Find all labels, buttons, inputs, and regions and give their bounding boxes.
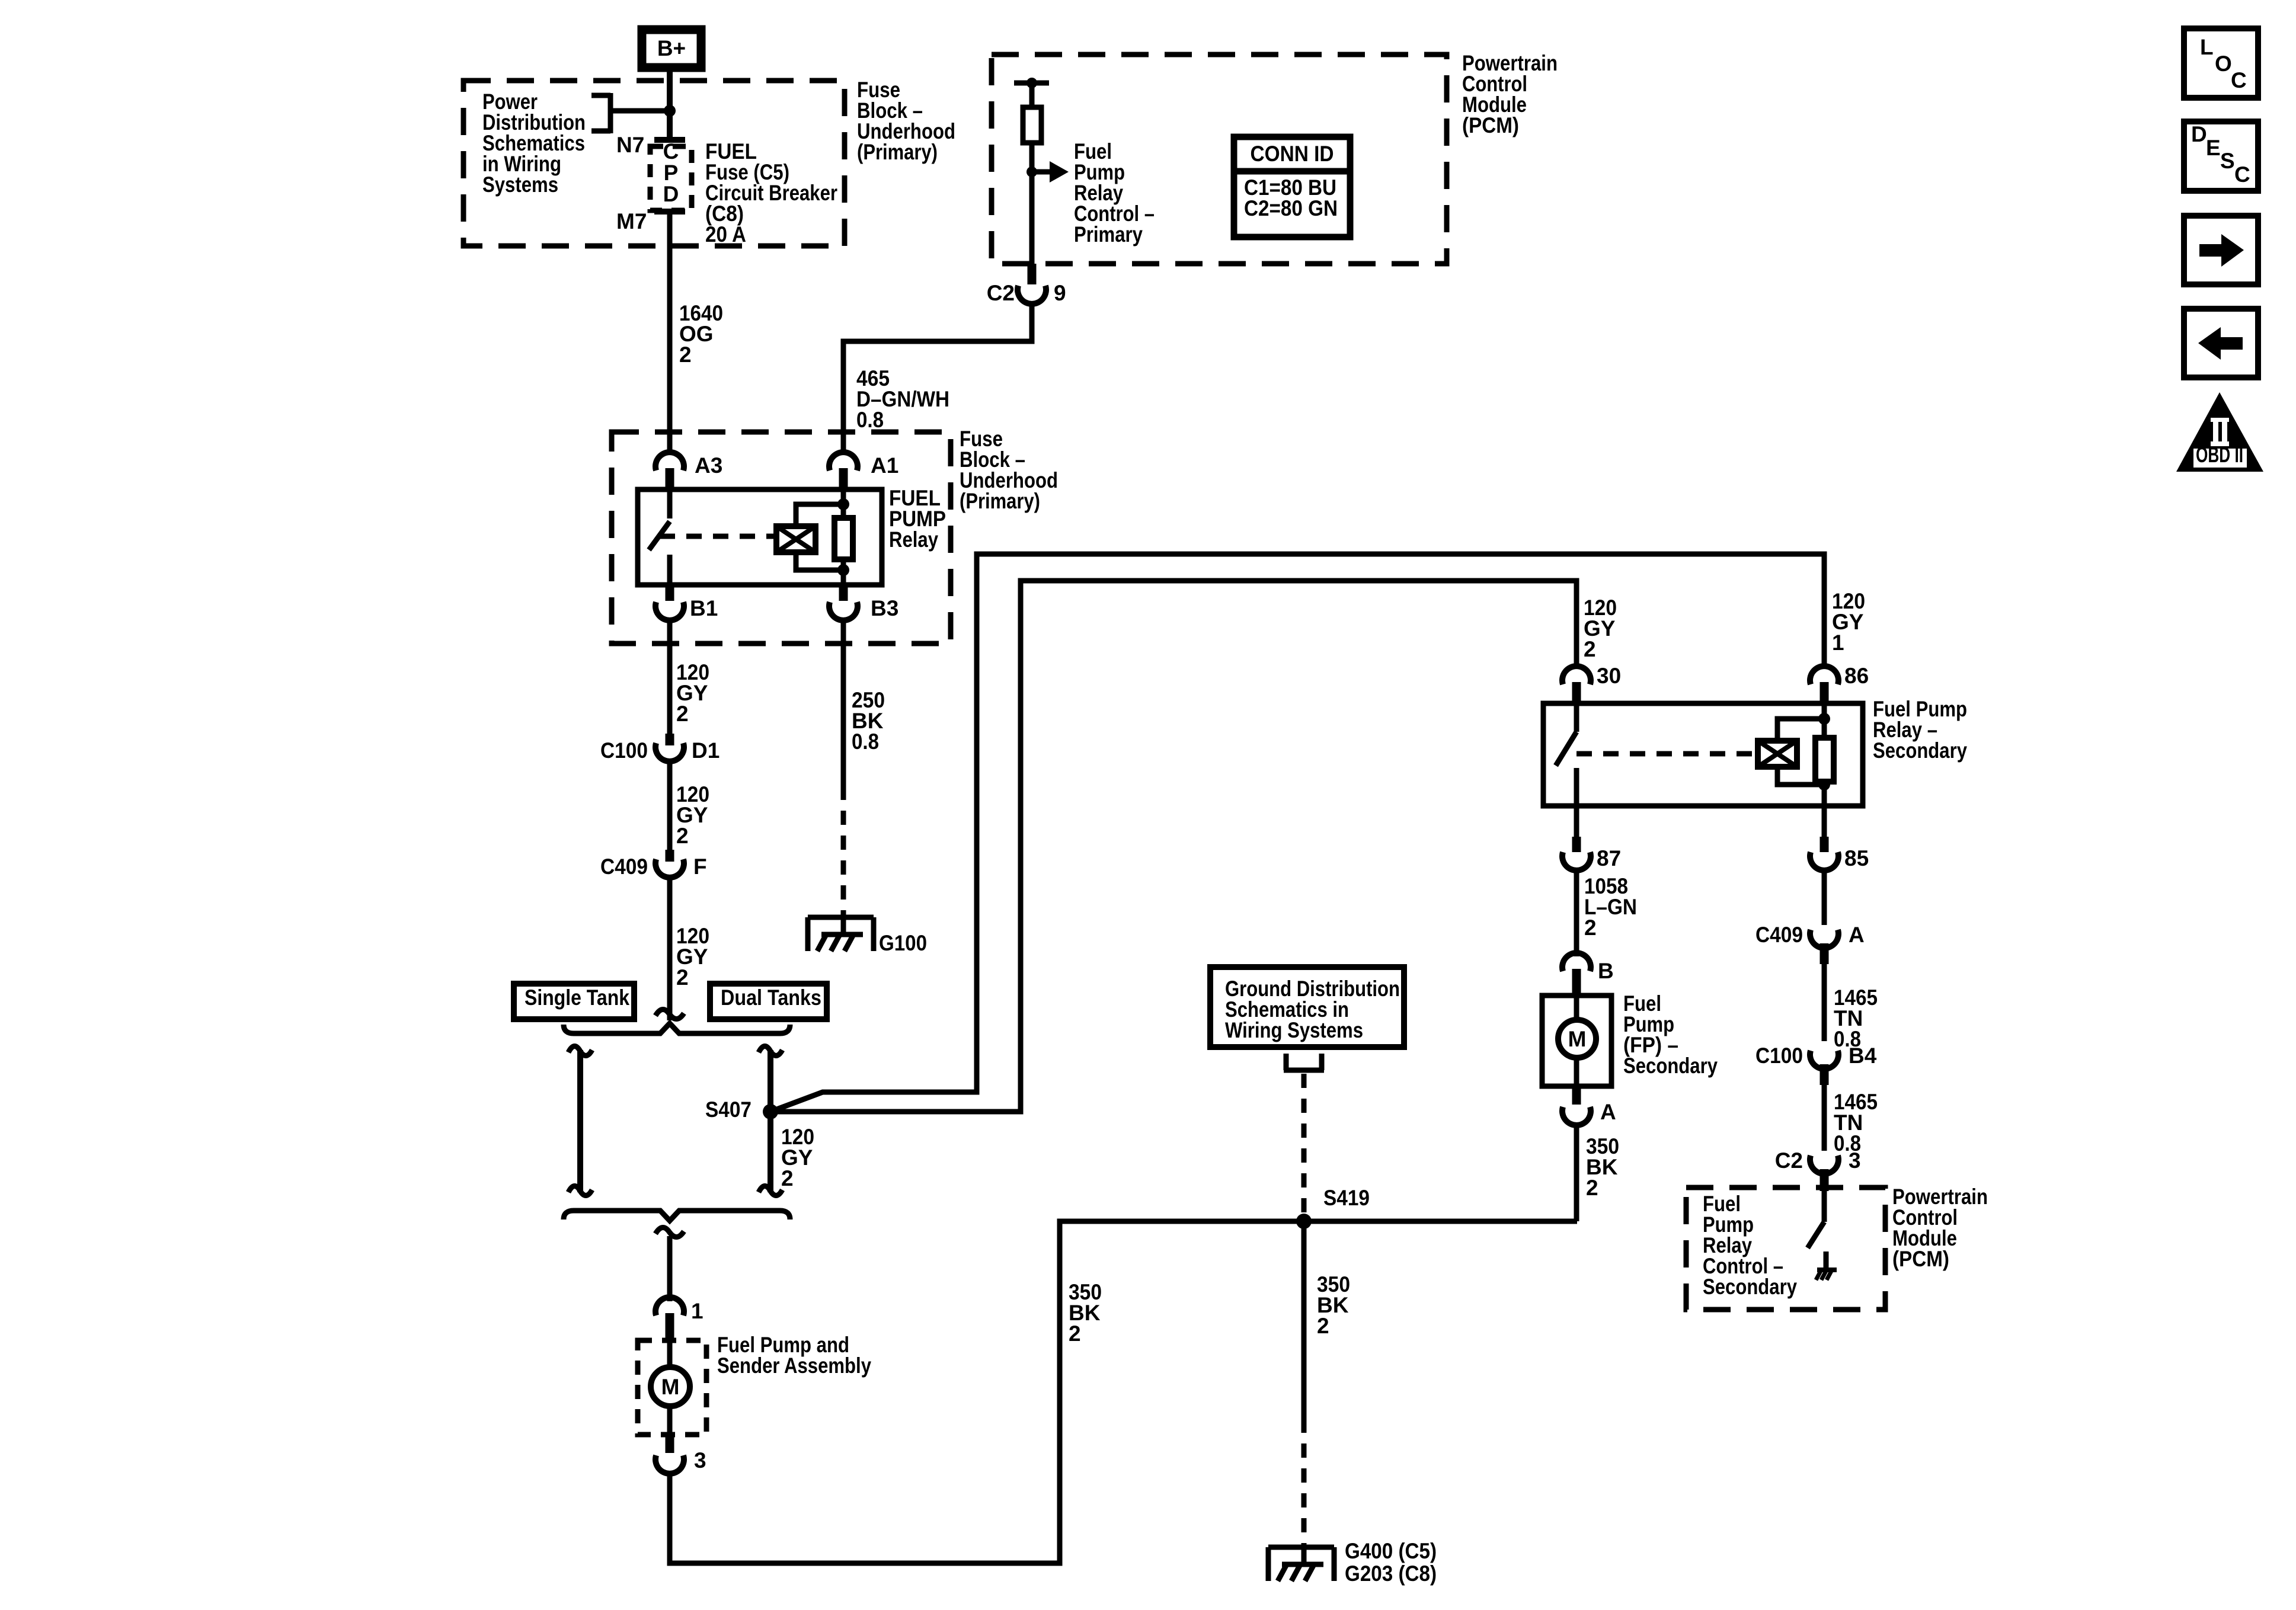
power distribution schematics label — [482, 89, 586, 197]
wire 85 to C409-A, circuit 1465 — [1822, 870, 1827, 925]
tank option brace - top — [564, 1023, 790, 1033]
svg-text:CONN ID: CONN ID — [1251, 142, 1334, 166]
svg-text:C2: C2 — [1775, 1148, 1803, 1173]
svg-text:Wiring Systems: Wiring Systems — [1225, 1018, 1363, 1042]
svg-text:M: M — [1568, 1027, 1587, 1051]
splice S407 — [705, 1097, 778, 1122]
wire pump A to S419, circuit 350 — [1574, 1126, 1579, 1221]
wire S407 to relay secondary 86 — [770, 554, 1824, 1112]
svg-text:B3: B3 — [871, 596, 898, 620]
svg-text:20 A: 20 A — [705, 222, 746, 247]
connector pin 87 — [1562, 806, 1621, 870]
ground G100 — [808, 916, 927, 955]
svg-text:1: 1 — [691, 1299, 703, 1323]
fuel pump relay control primary label — [1074, 139, 1155, 247]
Dual Tanks box — [710, 984, 827, 1019]
svg-text:C409: C409 — [600, 854, 648, 879]
fuse description label — [705, 139, 837, 247]
connector C409 pin A — [1755, 923, 1865, 964]
svg-text:G100: G100 — [879, 931, 927, 955]
FUEL PUMP Relay label — [889, 486, 946, 552]
svg-text:D: D — [663, 182, 679, 206]
svg-text:3: 3 — [1849, 1148, 1861, 1173]
icon DESC — [2184, 121, 2258, 191]
svg-text:87: 87 — [1597, 846, 1621, 870]
svg-text:2: 2 — [1317, 1314, 1329, 1338]
splice symbol below tank brace — [655, 1227, 684, 1237]
svg-text:C409: C409 — [1755, 923, 1803, 947]
svg-text:O: O — [2215, 52, 2232, 76]
wire B+ to fuse — [667, 72, 673, 139]
svg-text:B: B — [1598, 959, 1614, 983]
svg-text:M: M — [661, 1375, 680, 1399]
fuel pump FP secondary label — [1623, 991, 1718, 1078]
circuit 120 GY 1 at pin 86 — [1832, 589, 1865, 655]
svg-text:Dual Tanks: Dual Tanks — [721, 985, 821, 1010]
svg-text:2: 2 — [676, 824, 689, 848]
CONN ID table — [1234, 137, 1350, 237]
svg-text:2: 2 — [1069, 1321, 1081, 1346]
connector B3 — [829, 585, 898, 620]
power distribution reference bracket — [591, 93, 670, 133]
svg-text:C100: C100 — [1755, 1044, 1803, 1068]
circuit 1465 TN 0.8 - lower — [1822, 1085, 1827, 1151]
svg-text:D: D — [2191, 122, 2207, 146]
circuit 120 GY 2 at S407 — [781, 1125, 814, 1190]
dual tank bracket - right — [759, 1046, 782, 1195]
svg-text:0.8: 0.8 — [852, 729, 879, 754]
svg-text:Systems: Systems — [482, 172, 558, 197]
fuse block relay label — [960, 427, 1058, 513]
svg-text:9: 9 — [1054, 281, 1066, 305]
circuit 120 GY 2 at pin 30 — [1584, 596, 1617, 661]
splice symbol above tank brace — [655, 1009, 684, 1019]
connector pin B — [1562, 953, 1614, 996]
ground distribution drop bracket — [1284, 1054, 1324, 1070]
svg-text:2: 2 — [676, 965, 689, 990]
ground distribution schematics box — [1210, 967, 1404, 1047]
svg-text:(Primary): (Primary) — [960, 489, 1040, 513]
relay secondary coil — [1758, 741, 1797, 767]
svg-text:N7: N7 — [616, 133, 644, 157]
svg-text:Sender Assembly: Sender Assembly — [717, 1353, 871, 1378]
ground G400 / G203 — [1268, 1539, 1437, 1586]
icon LOC — [2184, 28, 2258, 98]
wire pump return to S419 — [670, 1221, 1577, 1563]
svg-text:(PCM): (PCM) — [1462, 113, 1519, 137]
fuse block underhood (primary) dashed box - top — [463, 81, 845, 246]
wire C409 to tanks, circuit 120 — [667, 878, 673, 1020]
svg-text:Primary: Primary — [1074, 222, 1143, 247]
svg-text:A3: A3 — [695, 453, 722, 478]
svg-text:F: F — [693, 854, 707, 879]
powertrain control module dashed box - top — [992, 55, 1447, 264]
svg-text:Single Tank: Single Tank — [525, 985, 629, 1010]
svg-text:(PCM): (PCM) — [1892, 1247, 1949, 1271]
connector C2 pin 3 — [1775, 1148, 1861, 1191]
relay secondary switch — [1556, 703, 1576, 806]
svg-text:3: 3 — [694, 1448, 706, 1473]
svg-text:Secondary: Secondary — [1623, 1054, 1718, 1078]
svg-text:G203 (C8): G203 (C8) — [1345, 1561, 1437, 1586]
svg-text:A1: A1 — [871, 453, 898, 478]
fuse block label — [857, 78, 955, 164]
wire S407 to relay secondary 30 — [770, 581, 1576, 1112]
svg-text:85: 85 — [1844, 846, 1869, 870]
circuit 350 BK 2 - left — [1069, 1280, 1102, 1346]
svg-text:S: S — [2220, 149, 2235, 173]
svg-text:C2: C2 — [987, 281, 1015, 305]
svg-text:M7: M7 — [616, 209, 647, 233]
connector pin 1 — [655, 1297, 703, 1340]
PCM secondary driver switch to ground — [1808, 1191, 1837, 1280]
connector C409 pin F — [600, 850, 707, 879]
svg-text:2: 2 — [781, 1166, 794, 1190]
fuel pump and sender assembly dashed box — [638, 1340, 706, 1435]
connector C2 pin 9 (PCM) — [987, 264, 1066, 305]
fuse CPD (FUEL fuse / circuit breaker) — [650, 139, 692, 212]
svg-text:2: 2 — [1584, 916, 1597, 940]
single tank bracket - left — [568, 1046, 592, 1195]
svg-text:OBD II: OBD II — [2196, 443, 2243, 467]
connector pin A — [1562, 1086, 1616, 1125]
wire to fuel pump connector 1 — [667, 1236, 673, 1301]
relay actuation dashed line — [660, 534, 775, 539]
svg-text:C: C — [2234, 162, 2250, 187]
icon arrow right — [2184, 216, 2258, 284]
fuel pump motor M — [651, 1340, 690, 1435]
svg-text:0.8: 0.8 — [856, 408, 884, 432]
wire fuse to A3, circuit 1640 — [667, 213, 673, 453]
svg-text:E: E — [2206, 136, 2221, 160]
PCM secondary dashed box — [1686, 1188, 1885, 1310]
svg-text:A: A — [1849, 923, 1865, 947]
PCM driver resistor — [1023, 83, 1041, 264]
PCM secondary label — [1892, 1185, 1988, 1271]
svg-text:2: 2 — [676, 702, 689, 726]
fuse block underhood (primary) dashed box - relay — [612, 432, 951, 644]
svg-text:30: 30 — [1597, 664, 1621, 688]
wire B1 to C100, circuit 120 — [667, 621, 673, 736]
svg-text:2: 2 — [679, 343, 692, 367]
connector A3 — [655, 452, 722, 489]
svg-text:A: A — [1600, 1100, 1616, 1124]
wire C100 to C409, circuit 120 — [667, 762, 673, 852]
coil wiring and junctions — [796, 489, 849, 585]
svg-text:B+: B+ — [657, 36, 686, 60]
connector pin 3 — [655, 1435, 706, 1474]
relay switch — [649, 489, 670, 585]
fuel pump relay control arrow — [1027, 161, 1069, 183]
svg-text:B1: B1 — [690, 596, 718, 620]
relay secondary coil wiring — [1777, 703, 1830, 806]
svg-text:S407: S407 — [705, 1097, 752, 1122]
connector A1 — [829, 452, 898, 489]
relay coil — [776, 526, 816, 552]
fuel pump relay control secondary label — [1703, 1192, 1797, 1299]
fuel pump and sender assembly label — [717, 1333, 871, 1378]
svg-text:2: 2 — [1584, 637, 1596, 661]
svg-text:C100: C100 — [600, 738, 648, 763]
svg-text:Secondary: Secondary — [1703, 1275, 1797, 1299]
junction node on B+ wire — [664, 105, 676, 117]
icon arrow left — [2184, 309, 2258, 377]
fuel pump relay secondary label — [1873, 697, 1967, 763]
dashed wire to S419 — [1302, 1074, 1307, 1218]
svg-text:S419: S419 — [1323, 1186, 1370, 1210]
PCM label — [1462, 51, 1558, 137]
circuit 350 BK 2 - middle — [1317, 1272, 1350, 1338]
svg-text:86: 86 — [1844, 664, 1869, 688]
svg-text:L: L — [2200, 35, 2214, 59]
PCM driver: supply tick and junction — [1014, 78, 1049, 88]
circuit 1465 TN 0.8 - upper — [1822, 964, 1827, 1041]
connector C100 pin B4 — [1755, 1044, 1877, 1085]
svg-text:C: C — [663, 139, 679, 164]
fuel pump FP secondary box — [1542, 996, 1611, 1086]
wire 87 to pump B, circuit 1058 — [1574, 870, 1579, 956]
relay secondary actuation dashed line — [1576, 751, 1757, 757]
connector C100 pin D1 — [600, 734, 720, 763]
splice S419 — [1296, 1186, 1370, 1229]
icon OBD II triangle — [2176, 392, 2263, 472]
svg-text:C2=80 GN: C2=80 GN — [1244, 196, 1338, 220]
svg-text:C: C — [2231, 68, 2247, 92]
fuel pump relay secondary box — [1543, 703, 1863, 806]
svg-text:G400 (C5): G400 (C5) — [1345, 1539, 1437, 1563]
svg-text:Secondary: Secondary — [1873, 738, 1967, 763]
svg-text:P: P — [664, 161, 679, 185]
svg-text:2: 2 — [1586, 1176, 1598, 1200]
wire B3 to G100, circuit 250 — [841, 621, 846, 916]
svg-text:1: 1 — [1832, 630, 1844, 655]
battery feed B+ terminal — [642, 30, 701, 68]
connector pin 30 — [1562, 664, 1621, 703]
relay resistor — [834, 518, 853, 559]
FUEL PUMP relay box — [638, 489, 882, 585]
wire C2-9 to A1, circuit 465 — [843, 305, 1032, 453]
connector pin 85 — [1810, 806, 1869, 870]
svg-text:B4: B4 — [1849, 1044, 1877, 1068]
connector pin 86 — [1810, 664, 1869, 703]
relay secondary resistor — [1815, 738, 1834, 782]
svg-text:D1: D1 — [692, 738, 720, 763]
svg-text:(Primary): (Primary) — [857, 140, 938, 164]
wire S419 to G400 — [1302, 1221, 1307, 1544]
tank option brace - bottom — [564, 1211, 790, 1221]
connector B1 — [655, 585, 718, 620]
svg-text:Relay: Relay — [889, 527, 938, 552]
Single Tank box — [514, 984, 634, 1019]
